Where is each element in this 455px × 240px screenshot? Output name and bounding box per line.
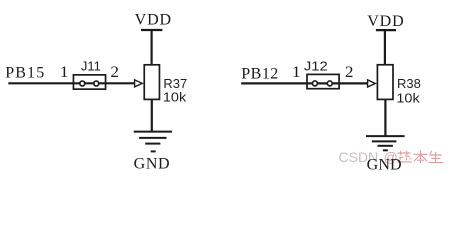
svg-text:1: 1 [60, 64, 69, 81]
svg-text:VDD: VDD [135, 11, 172, 28]
svg-text:R38: R38 [397, 76, 421, 91]
svg-text:10k: 10k [163, 90, 187, 105]
svg-text:GND: GND [367, 157, 402, 173]
svg-text:J11: J11 [81, 59, 101, 74]
svg-text:2: 2 [345, 64, 354, 81]
svg-text:PB15: PB15 [5, 65, 44, 82]
svg-text:10k: 10k [396, 91, 420, 106]
svg-text:PB12: PB12 [241, 65, 278, 82]
svg-text:J12: J12 [304, 58, 328, 73]
svg-text:GND: GND [134, 156, 170, 173]
svg-text:2: 2 [110, 64, 119, 81]
svg-text:VDD: VDD [367, 13, 404, 30]
svg-text:1: 1 [292, 64, 301, 81]
